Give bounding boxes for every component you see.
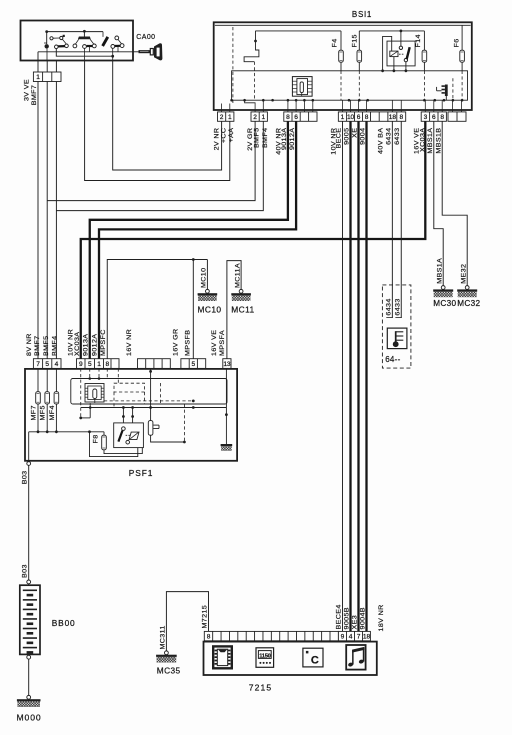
BSI1 dashed drop from step <box>253 62 255 100</box>
PSF1 connector C empty cells <box>138 359 171 369</box>
battery BB00 box <box>20 585 40 654</box>
wire MC10 ground lead <box>206 260 208 290</box>
svg-text:4: 4 <box>349 633 353 640</box>
icon IC chip <box>213 646 232 668</box>
7215 pin row right 9|4|7|18 <box>338 631 370 640</box>
svg-text:13: 13 <box>223 361 231 368</box>
connector circle battery bottom <box>27 655 31 659</box>
wire S1 to BMF5 exit <box>46 49 48 61</box>
wire +CC (CA00 to BSI1 pin2) <box>113 61 222 171</box>
junction dot rail2 +CC <box>111 55 114 58</box>
wire XE / XE3 thick (BSI1 to 7215 pin7) <box>357 112 359 632</box>
BSI1 inner bus junction dots <box>230 99 233 102</box>
wire BMF4 (CA00 to PSF1 pin4) <box>55 61 57 359</box>
wire MPSFC (PSF1 pin8 up and right) <box>107 260 207 359</box>
svg-text:BMF4: BMF4 <box>52 336 59 356</box>
PSF1 dashed horizontal <box>104 400 193 402</box>
wire B03 (to battery) <box>28 465 30 580</box>
ground MC10 <box>206 289 210 293</box>
S3 thick contact bar <box>115 45 120 47</box>
svg-text:1150: 1150 <box>259 653 270 659</box>
svg-text:M000: M000 <box>17 712 42 722</box>
CA00 internal rail 2 <box>56 49 112 57</box>
svg-text:XE3: XE3 <box>352 615 359 630</box>
wire +AA (CA00 to BSI1 pin1) <box>85 61 230 181</box>
svg-text:18: 18 <box>389 114 397 121</box>
svg-text:MBS1A: MBS1A <box>437 258 444 284</box>
svg-text:4: 4 <box>55 361 59 368</box>
junction dot top rail mid <box>83 30 86 33</box>
thermal unit 64 box <box>387 328 407 349</box>
svg-text:MBS1B: MBS1B <box>436 128 443 154</box>
svg-text:6: 6 <box>357 114 361 121</box>
svg-text:3: 3 <box>424 114 428 121</box>
svg-text:9013A: 9013A <box>281 128 288 150</box>
wire 9005 / 9005B thick (BSI1 to 7215 pin4) <box>349 112 351 632</box>
svg-text:C: C <box>311 655 319 667</box>
BSI1 inner rectangle <box>232 71 468 100</box>
svg-text:9005B: 9005B <box>344 607 351 629</box>
svg-text:MBS1A: MBS1A <box>427 128 434 154</box>
7215 control unit box <box>204 642 377 675</box>
svg-text:MC10: MC10 <box>198 305 222 315</box>
svg-text:16V VE: 16V VE <box>211 330 218 356</box>
svg-text:MPSFB: MPSFB <box>185 330 192 356</box>
relay feed from bus <box>400 31 402 46</box>
PSF1 dashed small rect <box>114 383 145 392</box>
svg-text:8: 8 <box>286 114 290 121</box>
svg-text:F4: F4 <box>332 38 339 47</box>
svg-text:F15: F15 <box>352 34 359 47</box>
svg-text:BECE: BECE <box>336 128 343 149</box>
svg-text:5: 5 <box>192 361 196 368</box>
fuse MF5 <box>46 368 48 391</box>
svg-text:10: 10 <box>347 114 355 121</box>
svg-text:1: 1 <box>262 114 266 121</box>
svg-text:1: 1 <box>36 74 40 81</box>
ground MC11 <box>239 289 243 293</box>
relay in BSI1 <box>387 41 415 66</box>
svg-text:BECE4: BECE4 <box>336 604 343 629</box>
svg-text:9005: 9005 <box>344 128 351 145</box>
svg-text:8: 8 <box>399 114 403 121</box>
wire label underline 6433 <box>395 317 401 319</box>
buzzer symbol in BSI1 <box>445 85 448 97</box>
svg-text:MC11: MC11 <box>231 305 254 315</box>
F8 output to relay <box>104 448 142 454</box>
svg-text:8: 8 <box>105 361 109 368</box>
svg-text:F14: F14 <box>415 34 422 47</box>
PSF1 connector A pins 7|5|4 <box>33 359 61 369</box>
svg-text:9004B: 9004B <box>360 607 367 629</box>
BSI1 connector 5 pins 18|8 <box>388 112 406 121</box>
svg-text:9: 9 <box>341 633 345 640</box>
wire MPSFB (junction down to PSF1 pin5) <box>192 260 194 359</box>
BSI1 top bus right segment <box>359 30 424 32</box>
XC03A internal lead <box>79 417 82 420</box>
PSF1 internal ground lead <box>225 368 227 444</box>
PSF1 dashed verticals inside sub-box <box>159 383 161 404</box>
svg-text:6434: 6434 <box>386 298 393 315</box>
relay coil feed bracket <box>383 36 392 70</box>
BSI1 dashed left internal line <box>232 27 234 104</box>
svg-text:1: 1 <box>228 114 232 121</box>
svg-text:MF7: MF7 <box>31 405 38 420</box>
wire 9004 / 9004B thick (BSI1 to 7215 pin18) <box>365 112 367 632</box>
svg-text:MPSFC: MPSFC <box>100 329 107 356</box>
switch contact S1 (antivol) <box>46 32 48 44</box>
relay dashed link <box>399 53 404 55</box>
svg-text:BB00: BB00 <box>52 618 76 628</box>
svg-text:PSF1: PSF1 <box>129 468 154 478</box>
PSF1 box <box>25 369 237 461</box>
switch S1 thick contact bar <box>58 45 65 48</box>
svg-text:MC311: MC311 <box>160 625 167 649</box>
svg-text:ME32: ME32 <box>461 264 468 284</box>
CA00 internal top rail <box>47 31 103 33</box>
wire 6433 (BSI1 pin8 down to unit 64) <box>400 112 402 318</box>
7215 pin row left (pin 8) <box>204 631 338 640</box>
ignition switch CA00 box <box>21 21 134 61</box>
relay PSF1 leads <box>122 408 124 427</box>
svg-text:F8: F8 <box>93 434 100 443</box>
svg-text:40V BA: 40V BA <box>378 128 385 154</box>
BSI1 step wire left <box>244 31 259 62</box>
svg-text:1: 1 <box>341 114 345 121</box>
BSI1 pin stubs <box>221 104 223 112</box>
S2 thick contact bar <box>87 45 93 47</box>
svg-text:9013A: 9013A <box>83 334 90 356</box>
connector symbol in PSF1 <box>85 384 104 403</box>
connector symbol in BSI1 <box>292 77 312 97</box>
svg-text:64--: 64-- <box>385 355 400 364</box>
battery cells <box>23 589 37 591</box>
connector circle B03 upper <box>27 462 31 466</box>
svg-text:BMF7: BMF7 <box>34 336 41 356</box>
relay PSF1 box <box>114 423 144 448</box>
wire BMF5 branch (BSI1 pin2 to junction) <box>47 112 255 201</box>
svg-text:2: 2 <box>253 114 257 121</box>
PSF1 internal ground <box>221 444 233 446</box>
svg-text:CA00: CA00 <box>136 34 155 41</box>
relay contact <box>399 46 402 49</box>
svg-text:8V NR: 8V NR <box>26 333 33 356</box>
PSF1 connector D pin 5 <box>181 359 206 369</box>
wire S2 common to +AA exit <box>84 48 86 60</box>
icon music note <box>346 645 365 670</box>
svg-text:2: 2 <box>220 114 224 121</box>
svg-text:M7215: M7215 <box>202 605 209 629</box>
svg-text:MF5: MF5 <box>40 405 47 420</box>
svg-text:+AA: +AA <box>228 128 235 143</box>
BSI1 connector 1 pins 2|1 <box>218 112 234 121</box>
svg-text:8: 8 <box>440 114 444 121</box>
ground MC30 <box>441 286 445 290</box>
svg-text:7215: 7215 <box>249 683 273 693</box>
capacitor lead to dashed node <box>151 435 185 442</box>
svg-text:6433: 6433 <box>395 298 402 315</box>
svg-text:MC11A: MC11A <box>235 263 242 288</box>
ground MC35 <box>165 651 169 655</box>
junction MPSFB node <box>192 258 195 261</box>
svg-text:7: 7 <box>357 633 361 640</box>
BSI1 connector 7 empty <box>448 112 466 121</box>
switch contact S3 (accessoires) lever <box>103 37 108 46</box>
svg-text:BSI1: BSI1 <box>352 10 372 19</box>
PSF1 inner sub-box <box>71 379 227 405</box>
svg-text:5: 5 <box>45 361 49 368</box>
PSF1 connector E pin 13 <box>223 359 231 369</box>
relay PSF1 contact <box>122 427 126 431</box>
junction dot top rail left <box>45 30 48 33</box>
BSI1 connector 4 pins 1|10|6|8 + empties <box>338 112 388 121</box>
svg-text:B03: B03 <box>22 471 29 485</box>
svg-text:6433: 6433 <box>394 128 401 145</box>
svg-text:1: 1 <box>97 361 101 368</box>
battery terminal stubs <box>28 584 30 585</box>
svg-text:B03: B03 <box>22 564 29 578</box>
wire battery negative to ground M000 <box>28 654 30 695</box>
svg-text:XC03A: XC03A <box>420 128 427 152</box>
PSF1 supply bus <box>29 431 104 433</box>
BSI1 connector 2 pins 2|1 <box>251 112 267 121</box>
svg-text:6434: 6434 <box>386 128 393 145</box>
svg-text:9: 9 <box>79 361 83 368</box>
wire BMF4 branch (BSI1 pin1 to junction) <box>56 112 263 211</box>
BSI1 box <box>214 22 472 110</box>
wire B03 battery positive <box>28 460 30 463</box>
icon temperature C <box>303 648 323 667</box>
wire MBS1A (BSI1 pin6 to MC30 ground) <box>434 112 443 286</box>
relay coil <box>390 51 398 57</box>
svg-text:9004: 9004 <box>360 128 367 145</box>
ground M000 <box>27 695 31 699</box>
fuse MF4 <box>55 368 57 391</box>
svg-text:XC03A: XC03A <box>74 332 81 356</box>
svg-text:9012A: 9012A <box>92 334 99 356</box>
svg-text:BMF4: BMF4 <box>262 128 269 148</box>
svg-text:6: 6 <box>294 114 298 121</box>
BSI1 dashed vertical near buzzer <box>452 78 454 100</box>
ground MC32 <box>465 286 469 290</box>
wire BECE / BECE4 (BSI1 to 7215 pin9) <box>342 112 344 632</box>
wire 6434 (BSI1 pin18 down to unit 64) <box>391 112 393 318</box>
wire BMF7 (CA00 pin1 to PSF1 pin7, 3V VE) <box>37 61 39 359</box>
svg-text:8: 8 <box>207 633 211 640</box>
svg-text:8: 8 <box>365 114 369 121</box>
svg-text:MC35: MC35 <box>157 665 181 675</box>
svg-text:MF4: MF4 <box>49 405 56 420</box>
connector circle B03 lower <box>27 580 31 584</box>
fuse F4 <box>340 31 342 50</box>
wire M7215 (7215 pin8 to MC35 ground) <box>166 592 208 651</box>
PSF1 connector B pins 9|5|1|8 <box>77 359 120 369</box>
thermometer symbol <box>395 331 397 343</box>
svg-text:9012A: 9012A <box>289 128 296 150</box>
svg-text:MC30: MC30 <box>433 299 456 308</box>
wire MBS1B / ME32 (BSI1 pin8 to MC32 ground) <box>442 112 467 286</box>
svg-text:XE: XE <box>352 128 359 138</box>
fuse MF7 <box>37 368 39 391</box>
svg-text:MPSFA: MPSFA <box>219 330 226 356</box>
fuse F15 <box>358 31 360 50</box>
svg-text:3V VE: 3V VE <box>24 79 31 101</box>
wire bus to B03 exit <box>28 432 30 461</box>
BSI1 connector 6 pins 3|6|8 <box>421 112 446 121</box>
svg-text:2V NR: 2V NR <box>214 128 221 151</box>
svg-text:18V NR: 18V NR <box>378 604 385 631</box>
svg-text:BMF7: BMF7 <box>31 85 38 105</box>
svg-text:MC10: MC10 <box>201 268 208 288</box>
wire BMF5 (CA00 to PSF1 pin5) <box>46 61 48 359</box>
dashed box unit 64 <box>382 285 411 368</box>
svg-text:BMF5: BMF5 <box>43 336 50 356</box>
wire 9013A thick (BSI1 pin8 to PSF1 pin5) <box>90 112 288 359</box>
icon display <box>256 648 274 668</box>
PSF1 dashed pin continuations <box>80 368 82 418</box>
BSI1 connector 3 pins 8|6 + empties <box>284 112 317 121</box>
fuse F6 <box>461 25 463 50</box>
svg-text:6: 6 <box>432 114 436 121</box>
svg-text:MC32: MC32 <box>457 299 480 308</box>
svg-text:18: 18 <box>363 633 371 640</box>
svg-text:7: 7 <box>36 361 40 368</box>
bus branch to relay coil <box>90 432 138 457</box>
svg-text:BMF5: BMF5 <box>254 128 261 148</box>
CA00 internal rail 1 (to key) <box>38 51 133 53</box>
BSI1 inner top border line <box>215 24 471 26</box>
svg-text:F6: F6 <box>454 38 461 47</box>
switch contact S2 (demarrage) <box>83 31 85 36</box>
svg-text:16V GR: 16V GR <box>173 328 180 356</box>
svg-text:5: 5 <box>88 361 92 368</box>
connector under CA00 (pin 1) <box>33 72 61 82</box>
BSI1 top bus left segment <box>256 30 342 32</box>
fuse F14 <box>423 31 425 50</box>
wire 9012A thick (BSI1 pin6 to PSF1 pin1) <box>99 112 296 359</box>
relay leads to inner bus <box>393 57 395 71</box>
wire MPSFA (PSF1 pin13 up to MC11 ground) <box>227 261 241 359</box>
capacitor component in PSF1 <box>150 370 152 421</box>
key symbol CA00 <box>133 51 139 53</box>
wire label underline 6434 <box>386 317 392 319</box>
wire XC03A thick (BSI1 pin3 to PSF1 pin9) <box>81 112 426 359</box>
fuse F8 <box>103 432 105 435</box>
PSF1 internal bus <box>81 407 227 409</box>
relay PSF1 coil <box>129 432 139 440</box>
svg-text:+CC: +CC <box>221 128 228 144</box>
svg-text:16V NR: 16V NR <box>126 329 133 356</box>
